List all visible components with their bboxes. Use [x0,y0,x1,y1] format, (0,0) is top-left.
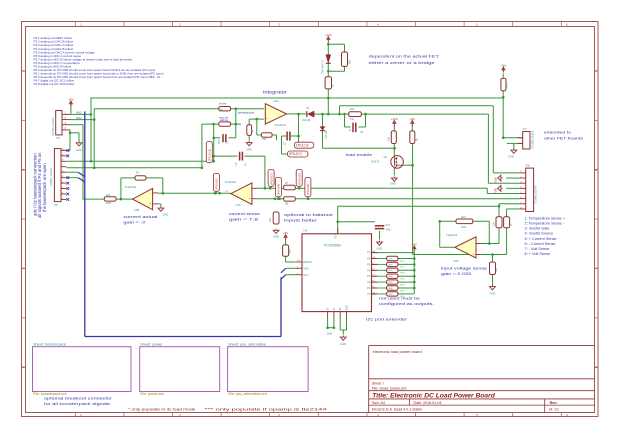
svg-text:P7: P7 [367,251,371,255]
svg-text:1: Temperature Sense +: 1: Temperature Sense + [525,216,566,220]
svg-text:8: + Volt Sense: 8: + Volt Sense [525,252,551,256]
svg-text:other FET boards: other FET boards [544,136,583,141]
svg-text:+: + [266,117,268,121]
svg-text:R24: R24 [262,138,267,141]
svg-text:(PSU62): (PSU62) [215,178,219,190]
svg-text:P5: P5 [367,262,371,266]
svg-text:U2A: U2A [274,99,280,103]
svg-text:100n: 100n [219,139,221,145]
svg-text:extended to: extended to [544,130,571,135]
svg-text:2: Temperature Sense -: 2: Temperature Sense - [525,221,565,225]
svg-text:C5: C5 [360,131,364,134]
svg-text:Sheet: power: Sheet: power [140,342,163,346]
svg-text:operating point: operating point [238,111,255,114]
svg-text:the boosterpack are open: the boosterpack are open [42,163,47,212]
svg-text:gain = 0.033: gain = 0.033 [441,271,471,276]
svg-text:U3C: U3C [235,203,241,207]
svg-text:File: power.sch: File: power.sch [140,392,164,396]
svg-text:electronic load power board: electronic load power board [373,349,422,354]
svg-text:gain = 7.8: gain = 7.8 [229,217,258,222]
svg-text:File: eload_power.sch: File: eload_power.sch [372,386,407,390]
svg-text:GND: GND [496,187,498,192]
svg-text:P0: P0 [367,292,371,296]
svg-text:Integrator: Integrator [263,90,288,95]
svg-text:File: boosterpack.sch: File: boosterpack.sch [33,392,67,396]
svg-text:P4.8 digital out I2C SDA follo: P4.8 digital out I2C SDA follow [34,82,76,86]
svg-text:*** only populate if opamp is: *** only populate if opamp is tle2144 [205,407,327,411]
svg-text:(PSU64): (PSU64) [277,184,281,196]
svg-text:not used must be: not used must be [379,296,420,301]
svg-text:C1: C1 [228,141,230,145]
svg-text:6: - Current Sense: 6: - Current Sense [525,242,556,246]
svg-text:4k99: 4k99 [506,82,509,88]
svg-text:-: - [249,186,250,190]
svg-text:R8: R8 [285,203,289,206]
svg-text:PCA9655D: PCA9655D [324,244,342,248]
svg-text:TLE2144: TLE2144 [446,233,458,237]
svg-text:R12: R12 [401,261,406,263]
svg-text:U3D: U3D [453,259,459,263]
svg-text:B: B [22,168,24,172]
svg-text:1N4732A 4.7: 1N4732A 4.7 [321,60,324,74]
svg-text:U3B: U3B [134,208,140,212]
svg-text:P4: P4 [367,268,371,272]
svg-text:GND: GND [273,235,279,239]
svg-text:File: psu_alternative.sch: File: psu_alternative.sch [228,392,267,396]
svg-text:+: + [473,253,475,257]
svg-text:+5V: +5V [68,98,73,102]
svg-text:gain = -2: gain = -2 [123,220,145,225]
svg-text:GND: GND [246,148,252,152]
svg-text:Date: 2016-01-04: Date: 2016-01-04 [414,401,442,405]
svg-text:GND: GND [347,305,349,310]
svg-text:* only populate in dc load mod: * only populate in dc load mode [128,407,195,411]
svg-text:Sheet: /: Sheet: / [372,382,384,386]
svg-text:CONN_01X10: CONN_01X10 [49,168,53,186]
svg-text:Id: 1/1: Id: 1/1 [549,407,559,411]
svg-text:R15: R15 [401,279,406,281]
svg-text:TLE2144: TLE2144 [225,180,237,184]
svg-text:RV1: RV1 [269,217,272,222]
svg-text:R14: R14 [401,273,406,275]
svg-text:TLE2144: TLE2144 [125,185,137,189]
svg-text:inputs better: inputs better [284,218,318,223]
svg-text:3: mosfet Gate: 3: mosfet Gate [525,227,550,231]
svg-text:7: - Volt Sense: 7: - Volt Sense [525,247,550,251]
svg-text:AIN2: AIN2 [76,117,82,120]
svg-text:R13: R13 [106,194,111,197]
svg-text:CONN_01X02: CONN_01X02 [531,130,535,148]
svg-text:GND: GND [509,155,515,159]
svg-text:680: 680 [349,59,352,64]
svg-text:A: A [595,69,597,73]
svg-text:0x56: 0x56 [327,332,333,336]
svg-text:P2: P2 [367,280,371,284]
svg-text:P6: P6 [367,257,371,261]
svg-text:5: + Current Sense: 5: + Current Sense [525,237,557,241]
svg-text:SCL: SCL [303,273,309,277]
svg-text:P4: P4 [57,136,61,140]
svg-text:4k99: 4k99 [289,248,292,254]
svg-text:C: C [22,266,25,270]
svg-text:1N4148: 1N4148 [302,119,311,122]
svg-text:-: - [150,191,151,195]
svg-text:+5V: +5V [412,243,417,247]
svg-text:R13: R13 [401,267,406,269]
svg-text:either a zener or a bridge: either a zener or a bridge [369,60,435,65]
svg-text:1k: 1k [416,138,419,141]
svg-text:U4: U4 [304,228,308,232]
svg-text:input voltage sense: input voltage sense [441,266,487,271]
svg-text:1k: 1k [511,223,513,226]
svg-text:C3: C3 [283,143,287,146]
svg-text:(PSU65): (PSU65) [297,173,301,185]
svg-text:(PSU63): (PSU63) [269,173,273,185]
svg-text:(PSU6.9): (PSU6.9) [208,149,212,161]
svg-text:I2c port extender: I2c port extender [366,317,408,322]
svg-text:51k: 51k [350,118,355,121]
svg-text:P6: P6 [526,164,530,168]
svg-text:+5V: +5V [283,231,288,235]
svg-text:dependent on the actual FET.: dependent on the actual FET. [369,54,440,59]
svg-text:GND: GND [490,292,496,296]
svg-text:KiCad E.D.A. kicad 4.0.1-stab: KiCad E.D.A. kicad 4.0.1-stable [372,407,422,411]
svg-text:RESET: RESET [303,260,312,264]
svg-text:for all boosterpack signals: for all boosterpack signals [44,401,110,406]
svg-text:GND: GND [390,182,396,186]
svg-text:10k: 10k [494,221,496,226]
svg-text:+12V: +12V [325,33,332,37]
svg-text:C10: C10 [386,224,391,227]
svg-text:1N4148: 1N4148 [325,130,328,139]
svg-text:B: B [595,168,597,172]
svg-text:301k: 301k [461,226,467,229]
svg-text:configured as outputs.: configured as outputs. [379,301,434,306]
svg-text:R16: R16 [401,284,406,286]
svg-text:-: - [266,107,267,111]
svg-text:4k99: 4k99 [106,202,112,205]
svg-text:GND: GND [76,148,82,152]
svg-text:VCC: VCC [335,233,338,238]
svg-text:R11: R11 [350,107,355,111]
svg-text:+5V: +5V [501,64,506,68]
svg-text:Title: Electronic DC Load Powe: Title: Electronic DC Load Power Board [372,392,495,399]
svg-text:Rev:: Rev: [550,401,558,405]
svg-text:P5: P5 [54,203,58,207]
svg-text:C5: C5 [236,162,238,166]
svg-text:+12V: +12V [391,117,398,121]
svg-text:load enable: load enable [346,152,373,157]
svg-text:Size: A4: Size: A4 [372,401,385,405]
svg-text:(PSUC7): (PSUC7) [289,152,302,156]
svg-text:+: + [149,202,151,206]
svg-text:100n: 100n [386,229,392,232]
svg-text:D2: D2 [306,107,310,110]
svg-text:R19: R19 [461,215,466,219]
svg-text:10k: 10k [388,136,391,141]
svg-text:1u: 1u [245,163,247,166]
svg-text:TLE2144: TLE2144 [275,123,287,127]
svg-text:current actual: current actual [123,214,157,219]
svg-text:SDA: SDA [303,266,309,270]
svg-text:R3: R3 [136,171,140,174]
svg-text:P7: P7 [523,127,527,131]
svg-text:AIN0: AIN0 [76,112,82,115]
svg-text:Q2: Q2 [384,155,388,159]
svg-text:1u: 1u [349,129,352,132]
svg-text:GND: GND [340,342,346,346]
svg-text:current sense: current sense [229,211,260,216]
svg-text:(PSU66): (PSU66) [306,184,310,196]
svg-text:int res: int res [219,101,227,105]
svg-text:GND: GND [496,177,498,182]
svg-text:GND: GND [377,247,383,251]
svg-text:R17: R17 [401,290,406,292]
svg-text:CPULC8: CPULC8 [296,143,309,147]
svg-text:4: mosfet Source: 4: mosfet Source [525,232,554,236]
svg-text:add bal: add bal [220,119,228,122]
svg-text:+: + [249,197,251,201]
svg-text:+5V: +5V [410,117,415,121]
svg-text:P1: P1 [367,286,371,290]
svg-text:CONN_01X04: CONN_01X04 [51,117,55,135]
svg-text:A: A [22,69,24,73]
svg-text:optional to balance: optional to balance [284,212,333,217]
svg-text:R7: R7 [285,182,289,185]
svg-text:Sheet: psu_alternative: Sheet: psu_alternative [228,342,266,346]
svg-text:GND: GND [163,213,169,217]
svg-text:P3: P3 [367,274,371,278]
svg-text:-: - [473,242,474,246]
svg-text:CONN_01X08: CONN_01X08 [534,185,538,203]
svg-text:BS170: BS170 [372,160,380,164]
svg-text:optional breakout connector: optional breakout connector [44,396,113,401]
svg-text:Sheet: boosterpack: Sheet: boosterpack [33,342,66,346]
